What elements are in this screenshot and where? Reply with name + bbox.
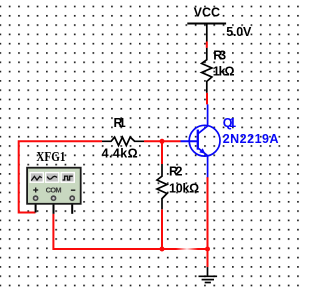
svg-text:R2: R2 bbox=[169, 164, 182, 178]
svg-text:R3: R3 bbox=[213, 49, 226, 63]
svg-text:VCC: VCC bbox=[194, 6, 220, 20]
svg-text:2N2219A: 2N2219A bbox=[223, 132, 279, 146]
svg-text:Q1: Q1 bbox=[223, 116, 236, 130]
svg-text:10kΩ: 10kΩ bbox=[169, 182, 199, 196]
svg-text:R1: R1 bbox=[114, 116, 126, 130]
svg-text:4.4kΩ: 4.4kΩ bbox=[102, 147, 138, 161]
svg-text:COM: COM bbox=[46, 186, 62, 195]
svg-text:5.0V: 5.0V bbox=[226, 25, 252, 39]
svg-text:1kΩ: 1kΩ bbox=[213, 64, 235, 78]
svg-text:XFG1: XFG1 bbox=[36, 149, 65, 164]
